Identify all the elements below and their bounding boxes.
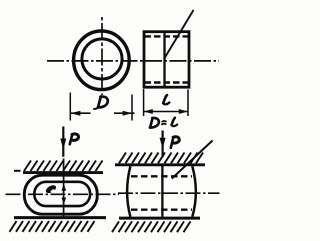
cylinder outline rectangle (side view) (144, 32, 189, 87)
vertical centerline of ring (101, 17, 103, 95)
leader diagonal on cylinder (164, 10, 193, 59)
hidden bore line bottom (dashed) (145, 81, 189, 83)
hatching below bottom plate (left figure) (10, 221, 95, 232)
hatching below bottom plate (right figure) (112, 221, 191, 232)
cylinder vertical mid line (163, 32, 165, 87)
compressed cylinder right edge (barrel) (192, 166, 196, 217)
bottom plate line (right figure) (119, 217, 200, 220)
hidden bore line top (dashed) (145, 35, 189, 37)
horizontal centerline (left specimen) (6, 193, 120, 195)
vertical centerline of compressed ring (63, 159, 65, 217)
horizontal centerline (right specimen) (118, 192, 220, 194)
force P arrow (right figure) (160, 131, 166, 158)
inner circle of ring (bore) (82, 39, 122, 79)
force P arrow (left figure) (60, 127, 66, 157)
compressed ring inner oval (34, 182, 90, 206)
leader diagonal (right figure) (172, 141, 213, 179)
label P (right figure) (171, 137, 180, 148)
compressed cylinder left edge (barrel) (127, 166, 130, 217)
vertical mid line (right specimen) (161, 166, 163, 217)
bottom plate line (left figure) (14, 216, 106, 219)
label D=L (150, 118, 177, 128)
hatching above top plate (right figure) (119, 153, 203, 164)
extension lines for dimension D (70, 93, 132, 121)
top plate line (right figure) (115, 163, 205, 166)
label delta (wall label inside ring) (45, 184, 58, 195)
hatching above top plate (left figure) (24, 161, 103, 172)
dimension line D with arrowheads (70, 111, 134, 116)
bore hidden line top (right specimen) (131, 175, 192, 177)
horizontal centerline through ring and cylinder (47, 60, 219, 62)
label L (163, 95, 169, 104)
outer circle of ring (end view) (74, 31, 130, 90)
bore hidden line bottom (right specimen) (131, 209, 192, 211)
bore height arrowheads on centerline (62, 184, 67, 205)
compressed ring outer oval (24, 175, 97, 214)
label D (94, 97, 108, 109)
dimension line L with arrowheads (144, 109, 188, 114)
top plate line (left figure) (14, 171, 103, 173)
extension lines for dimension L (144, 89, 188, 116)
label P (left figure) (70, 134, 79, 144)
